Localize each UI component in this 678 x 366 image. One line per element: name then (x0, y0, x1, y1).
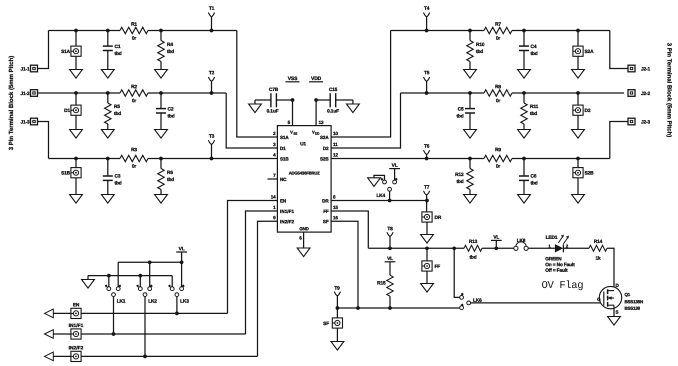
ground R6 (160, 190, 162, 195)
input arrow IN2/F2 (45, 352, 54, 361)
wire SF from pin 16 (331, 221, 358, 308)
svg-text:GREEN: GREEN (545, 256, 562, 262)
svg-text:tbd: tbd (476, 49, 483, 55)
wire row2 right leg to pin 11 (331, 93, 400, 148)
svg-text:G: G (597, 297, 601, 302)
connector J2-1 (628, 65, 635, 72)
svg-text:tbd: tbd (114, 181, 121, 187)
svg-text:tbd: tbd (167, 49, 174, 55)
node T7 DR (425, 199, 429, 203)
svg-text:0r: 0r (496, 164, 501, 170)
svg-text:R10: R10 (476, 42, 485, 48)
svg-text:S2B: S2B (584, 171, 594, 177)
svg-text:SF: SF (323, 321, 329, 327)
svg-text:0.1uF: 0.1uF (267, 108, 279, 114)
wire C7B to ground (255, 99, 271, 101)
resistor R4 (160, 31, 162, 41)
op-amp U1 ADG5436FBRUZ body (277, 126, 331, 233)
pin 5 stub VSS (292, 100, 294, 126)
svg-text:Off = Fault: Off = Fault (545, 268, 568, 274)
resistor R5 (107, 93, 109, 103)
test point DR (422, 212, 432, 222)
svg-text:tbd: tbd (114, 111, 121, 117)
capacitor C1 (107, 31, 109, 47)
wire J1-1 to row1 rail (38, 31, 49, 69)
ground C2 (160, 113, 162, 130)
test point S2B (577, 159, 579, 168)
node row1 R10 (468, 29, 472, 33)
wire IN2/F2 line (53, 355, 71, 357)
svg-text:LK3: LK3 (180, 299, 189, 305)
svg-text:0r: 0r (496, 98, 501, 104)
svg-text:0.1uF: 0.1uF (327, 108, 339, 114)
node row3 C6 (522, 157, 526, 161)
jumper LK6 (460, 296, 464, 300)
svg-text:R15: R15 (377, 280, 386, 286)
svg-text:D2: D2 (323, 146, 329, 151)
node VSS (291, 98, 295, 102)
capacitor C15 (316, 99, 330, 101)
input arrow IN1/F1 (45, 330, 54, 339)
node row3 C3 (106, 157, 110, 161)
test point IN2/F2 (71, 351, 81, 361)
svg-text:R9: R9 (495, 147, 501, 153)
node row2 D1 (74, 91, 78, 95)
svg-text:DR: DR (322, 198, 329, 203)
svg-text:EN: EN (73, 302, 80, 308)
svg-text:R7: R7 (495, 22, 501, 28)
svg-text:On = No Fault: On = No Fault (545, 262, 575, 268)
wire R13 to VL node (482, 247, 514, 249)
svg-text:10: 10 (333, 131, 338, 136)
svg-text:R3: R3 (131, 147, 137, 153)
ground C7B (249, 104, 262, 113)
connector J1-1 (31, 65, 38, 72)
wire R15 to SF line (389, 296, 391, 308)
svg-text:S1A: S1A (280, 135, 289, 140)
test point EN (71, 308, 81, 318)
svg-text:tbd: tbd (530, 51, 537, 57)
svg-text:C2: C2 (167, 107, 173, 113)
svg-text:IN2/F2: IN2/F2 (280, 219, 294, 224)
svg-text:U1: U1 (300, 141, 306, 147)
wire row2 right rail (401, 92, 485, 94)
ground S1B (75, 178, 77, 195)
wire row3 to J2-3 (610, 122, 628, 159)
node row1 C1 (106, 29, 110, 33)
svg-text:T6: T6 (424, 144, 430, 150)
svg-text:14: 14 (271, 194, 276, 199)
node row1 T1 (210, 29, 214, 33)
svg-text:S2A: S2A (320, 135, 329, 140)
resistor R3 (120, 155, 148, 161)
ground C3 (107, 180, 109, 194)
test point D1 (75, 93, 77, 105)
wire LK6 to Q1 gate (471, 302, 602, 304)
wire EN leg to pin 14 (228, 201, 278, 314)
svg-text:IN1/F1: IN1/F1 (280, 209, 294, 214)
pin 7 NC stub (268, 178, 278, 180)
svg-text:T1: T1 (209, 6, 215, 12)
svg-text:VL: VL (387, 256, 393, 262)
svg-text:FF: FF (323, 209, 329, 214)
svg-text:R5: R5 (114, 104, 120, 110)
svg-text:0r: 0r (496, 36, 501, 42)
svg-text:IN2/F2: IN2/F2 (69, 345, 84, 351)
svg-text:R1: R1 (131, 22, 137, 28)
resistor R14 (589, 245, 607, 251)
node row1 S2A (576, 29, 580, 33)
svg-text:C4: C4 (530, 44, 536, 50)
ground LK4 (368, 178, 381, 187)
pin 13 stub VDD (315, 100, 317, 126)
wire SF line (337, 307, 459, 309)
svg-text:C15: C15 (329, 87, 338, 93)
ground C5 (469, 113, 471, 130)
svg-text:R14: R14 (594, 239, 603, 245)
node row2 R11 (522, 91, 526, 95)
resistor R11 (523, 93, 525, 103)
capacitor C2 (160, 93, 162, 109)
wire FF to LK6 top (454, 248, 460, 297)
capacitor C5 (469, 93, 471, 109)
resistor R12 (469, 159, 471, 169)
svg-text:tbd: tbd (167, 114, 174, 120)
ground R10 (469, 62, 471, 70)
svg-text:J1-1: J1-1 (20, 66, 29, 72)
wire IN1 leg to pin 1 (246, 211, 278, 334)
capacitor C3 (107, 159, 109, 177)
ground C15 (347, 104, 360, 113)
svg-text:GND: GND (299, 226, 308, 231)
node row2 R5 (106, 91, 110, 95)
input arrow EN (45, 309, 54, 318)
node row3 T3 (210, 157, 214, 161)
svg-text:T3: T3 (209, 134, 215, 140)
ground C1 (107, 51, 109, 70)
connector J1-3 (31, 118, 38, 125)
svg-text:LK4: LK4 (376, 193, 385, 199)
svg-text:3 Pin Terminal Block (5mm Pitc: 3 Pin Terminal Block (5mm Pitch) (666, 43, 673, 138)
capacitor C7B (277, 99, 293, 101)
ground S2A (577, 56, 579, 69)
ground C4 (523, 51, 525, 70)
svg-text:VL: VL (493, 235, 499, 241)
svg-text:T5: T5 (424, 70, 430, 76)
wire row1 right leg to pin 10 (331, 31, 391, 138)
node row1 T4 (425, 29, 429, 33)
jumper LK3 (171, 276, 173, 287)
ground FF (426, 271, 428, 283)
svg-text:12: 12 (333, 153, 338, 158)
svg-text:S1B: S1B (61, 170, 71, 176)
svg-text:11: 11 (333, 142, 338, 147)
wire LK3 to signal line (176, 297, 178, 314)
svg-text:VSS: VSS (288, 76, 298, 82)
test point FF (425, 246, 429, 250)
node LK4 DR (388, 199, 392, 203)
ground S1A (75, 56, 77, 69)
svg-text:T2: T2 (209, 70, 215, 76)
wire row2 left leg to pin 3 (226, 93, 277, 148)
node VDD (314, 98, 318, 102)
svg-text:EN: EN (280, 199, 287, 204)
ground SF (336, 328, 338, 341)
wire IN1/F1 line (53, 333, 71, 335)
svg-text:C3: C3 (114, 174, 120, 180)
wire LK2 to signal line (144, 297, 146, 357)
wire IN2 leg to pin 9 (258, 221, 278, 356)
svg-text:SF: SF (323, 219, 329, 224)
resistor R10 (469, 31, 471, 41)
node row3 T6 (425, 157, 429, 161)
resistor R6 (160, 159, 162, 169)
svg-text:S2B: S2B (320, 156, 329, 161)
test point S1B (75, 159, 77, 168)
wire LK1 to signal line (113, 297, 115, 335)
svg-text:J2-1: J2-1 (641, 67, 650, 73)
svg-text:tbd: tbd (456, 179, 463, 185)
wire J1-3 to row3 rail (38, 122, 49, 159)
svg-text:C7B: C7B (269, 87, 279, 93)
svg-text:T8: T8 (387, 226, 393, 232)
wire row1 right rail (391, 30, 484, 32)
svg-text:R2: R2 (131, 84, 137, 90)
node row2 D2 (576, 91, 580, 95)
wire FF line (368, 247, 464, 249)
node row3 R6 (159, 157, 163, 161)
resistor R7 (484, 27, 512, 33)
svg-text:C6: C6 (530, 174, 536, 180)
node row1 C4 (522, 29, 526, 33)
node FF to LK6 (452, 246, 456, 250)
node row2 T5 (425, 91, 429, 95)
wire FF from pin 15 (331, 211, 368, 248)
connector J2-2 (628, 90, 635, 97)
resistor R13 (464, 245, 482, 251)
resistor R2 (120, 90, 148, 96)
svg-text:J1-3: J1-3 (20, 119, 29, 125)
node row1 R4 (159, 29, 163, 33)
jumper LK2 (139, 276, 141, 287)
svg-text:tbd: tbd (114, 51, 121, 57)
capacitor C4 (523, 31, 525, 47)
pin 6 GND stub (303, 232, 305, 248)
svg-text:FF: FF (434, 264, 440, 270)
transistor Q1 (599, 286, 621, 308)
ground C6 (523, 180, 525, 194)
svg-text:J1-2: J1-2 (20, 91, 29, 97)
svg-text:C5: C5 (458, 106, 464, 112)
wire R14 to Q1 drain (607, 248, 614, 290)
ground R12 (469, 190, 471, 195)
svg-text:0r: 0r (132, 98, 137, 104)
svg-text:tbd: tbd (469, 255, 476, 261)
svg-text:R13: R13 (469, 239, 478, 245)
svg-text:T9: T9 (334, 286, 340, 292)
ground DR (426, 222, 428, 234)
svg-text:1k: 1k (595, 256, 601, 262)
wire VL rail (118, 261, 181, 263)
svg-text:T4: T4 (424, 6, 430, 12)
svg-text:T7: T7 (424, 185, 430, 191)
svg-text:D1: D1 (64, 108, 70, 114)
svg-text:R8: R8 (495, 84, 501, 90)
svg-text:C1: C1 (114, 44, 120, 50)
svg-text:tbd: tbd (530, 111, 537, 117)
svg-text:LK2: LK2 (148, 299, 157, 305)
node VL LED (494, 246, 498, 250)
wire LED1 to R14 (563, 247, 589, 249)
svg-text:13: 13 (319, 120, 324, 125)
svg-text:BSS138N: BSS138N (624, 299, 642, 304)
svg-text:R6: R6 (167, 170, 173, 176)
svg-text:R4: R4 (167, 42, 173, 48)
ground S2B (577, 178, 579, 195)
wire EN line (53, 312, 71, 314)
ground IC pin 6 (297, 248, 310, 257)
node row1 S1A (74, 29, 78, 33)
test point S2A (577, 31, 579, 47)
svg-text:tbd: tbd (167, 177, 174, 183)
ground R11 (523, 124, 525, 130)
svg-text:NC: NC (280, 177, 287, 182)
ground R4 (160, 62, 162, 70)
wire LK8 to LED1 (528, 247, 555, 249)
svg-text:BSS138: BSS138 (624, 306, 640, 311)
wire LK4 to DR line (389, 191, 391, 200)
node row2 T2 (210, 91, 214, 95)
svg-text:J2-2: J2-2 (641, 91, 650, 97)
svg-text:15: 15 (333, 205, 338, 210)
wire row1 left leg to pin 2 (237, 31, 278, 138)
svg-text:tbd: tbd (456, 113, 463, 119)
svg-text:SS: SS (293, 132, 297, 136)
node row3 S2B (576, 157, 580, 161)
ground D1 (75, 115, 77, 129)
wire C15 to ground (336, 99, 353, 101)
connector J1-2 (31, 90, 38, 97)
svg-text:0r: 0r (132, 36, 137, 42)
svg-text:D1: D1 (280, 146, 286, 151)
svg-text:DR: DR (434, 215, 441, 221)
svg-text:ADG5436FBRUZ: ADG5436FBRUZ (289, 170, 321, 175)
test point SF (336, 308, 338, 318)
wire row2 left rail (38, 92, 121, 94)
svg-text:tbd: tbd (530, 181, 537, 187)
resistor R8 (484, 90, 512, 96)
resistor R1 (120, 27, 148, 33)
wire DR line from pin 8 (331, 200, 427, 202)
svg-text:LED1: LED1 (546, 235, 558, 241)
node row2 C2 (159, 91, 163, 95)
svg-text:3 Pin Terminal Block (5mm Pitc: 3 Pin Terminal Block (5mm Pitch) (8, 56, 15, 151)
svg-text:S2A: S2A (584, 49, 594, 55)
ground D2 (577, 115, 579, 129)
svg-text:J2-3: J2-3 (641, 120, 650, 126)
svg-text:S: S (615, 310, 618, 315)
wire GND rail (88, 275, 172, 277)
jumper LK1 (108, 276, 110, 287)
connector J2-3 (628, 118, 635, 125)
wire row3 left rail to pin 4 (49, 158, 121, 160)
ground Q1 (608, 317, 621, 326)
ground jumper rail (87, 276, 89, 280)
LED1 arrows (558, 236, 563, 243)
svg-text:R11: R11 (530, 104, 539, 110)
node row3 R12 (468, 157, 472, 161)
svg-text:S1A: S1A (61, 49, 71, 55)
wire row3 right rail from pin 12 (331, 158, 484, 160)
test point D2 (577, 93, 579, 105)
svg-text:VDD: VDD (311, 76, 322, 82)
node row2 C5 (468, 91, 472, 95)
svg-text:16: 16 (333, 215, 338, 220)
test point IN1/F1 (71, 329, 81, 339)
svg-text:R12: R12 (455, 172, 464, 178)
svg-text:0r: 0r (132, 164, 137, 170)
svg-text:D2: D2 (584, 108, 590, 114)
svg-text:Q1: Q1 (624, 292, 630, 297)
resistor R9 (484, 155, 512, 161)
resistor R15 (387, 275, 393, 296)
node row3 S1B (74, 157, 78, 161)
test point S1A (75, 31, 77, 47)
svg-text:S1B: S1B (280, 157, 289, 162)
svg-text:LK1: LK1 (117, 299, 126, 305)
svg-text:IN1/F1: IN1/F1 (69, 323, 84, 329)
wire Q1 source to ground (613, 309, 615, 317)
wire row1 to J2-1 (610, 31, 628, 69)
ground R5 (107, 124, 109, 130)
svg-text:VL: VL (392, 163, 398, 169)
wire row1 left rail (49, 30, 121, 32)
svg-text:OV Flag: OV Flag (541, 280, 583, 292)
capacitor C6 (523, 159, 525, 177)
